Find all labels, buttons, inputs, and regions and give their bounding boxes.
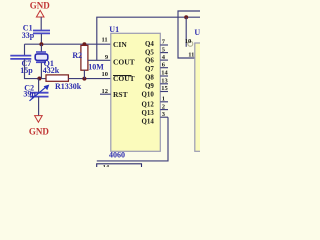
svg-text:432k: 432k: [43, 66, 60, 75]
svg-text:13: 13: [161, 78, 168, 85]
crystal Q1 value 432k: [35, 52, 60, 75]
svg-text:39p: 39p: [23, 89, 36, 98]
wire R1 right to pin10: [68, 78, 110, 80]
pin 12 RST: [100, 88, 128, 99]
svg-text:11: 11: [102, 37, 108, 44]
wire branch down to U2 pin 10: [185, 17, 187, 47]
svg-text:R1330k: R1330k: [55, 82, 82, 91]
svg-text:1: 1: [162, 96, 165, 103]
capacitor C2 trimmer value 39p: [23, 79, 49, 101]
svg-text:GND: GND: [29, 127, 50, 137]
wire gnd to C1: [40, 17, 42, 30]
svg-text:Q12: Q12: [142, 102, 155, 109]
svg-text:15p: 15p: [20, 66, 33, 75]
svg-text:10: 10: [185, 38, 192, 45]
pin 6 Q7: [145, 61, 168, 73]
pin 10 bubble U2: [185, 38, 193, 46]
pin 5 Q5: [145, 46, 168, 56]
svg-text:Q14: Q14: [142, 119, 155, 126]
pin 9 COUT: [105, 54, 135, 67]
svg-text:U1: U1: [109, 25, 119, 34]
svg-text:Q6: Q6: [145, 58, 154, 65]
wire C1 to CIN net: [40, 34, 42, 44]
node junction crystal/CIN: [39, 42, 43, 46]
pin 15 Q10: [142, 85, 169, 98]
svg-text:11: 11: [188, 51, 194, 58]
wire C7 to R1 row: [25, 59, 47, 78]
wire C2 to ground: [38, 97, 40, 116]
svg-text:15: 15: [161, 85, 168, 92]
pin 3 Q14: [142, 111, 168, 126]
resistor R1 value 330k: [46, 75, 82, 91]
svg-text:4060: 4060: [109, 150, 125, 159]
pin 2 Q13: [142, 103, 168, 117]
svg-text:12: 12: [102, 88, 109, 95]
pin 1 Q12: [142, 96, 168, 109]
wire crystal top: [40, 44, 42, 51]
wire CIN net pin 11: [25, 43, 111, 45]
node junction top rail to U2 pin10: [184, 15, 188, 19]
pin 7 Q4: [145, 39, 168, 48]
wire crystal bottom: [40, 63, 42, 79]
wire drop to C7: [24, 44, 26, 55]
ground GND bottom power port: [29, 116, 50, 137]
svg-text:Q4: Q4: [145, 41, 154, 48]
svg-text:Q10: Q10: [142, 91, 155, 98]
svg-text:10: 10: [102, 71, 109, 78]
svg-text:R2: R2: [72, 51, 82, 60]
pin 13 Q9: [145, 78, 169, 90]
svg-text:14: 14: [103, 164, 110, 167]
IC U2 partial right: [194, 28, 206, 151]
resistor R2 value 10M: [72, 45, 104, 78]
pin 4 Q6: [145, 54, 168, 65]
wire Q14 pin3 to bottom net: [97, 117, 168, 161]
svg-text:COUT: COUT: [113, 58, 135, 67]
ground GND top power port: [30, 1, 51, 17]
svg-text:33p: 33p: [22, 31, 35, 40]
capacitor C1 value 33p: [22, 24, 50, 40]
IC U4 partial bottom: [97, 164, 142, 172]
pin 10 COUT-bar: [102, 71, 135, 83]
svg-text:Q13: Q13: [142, 110, 155, 117]
svg-text:GND: GND: [30, 1, 51, 11]
pin 11 CIN: [102, 37, 128, 49]
svg-text:14: 14: [161, 70, 168, 77]
wire COUT pin9 net to top rail: [88, 59, 111, 61]
svg-text:RST: RST: [113, 90, 128, 99]
svg-text:Q7: Q7: [145, 66, 154, 73]
svg-text:CIN: CIN: [113, 40, 127, 49]
svg-text:Q9: Q9: [145, 83, 154, 90]
svg-text:U2: U2: [194, 28, 200, 37]
pin 14 Q8: [145, 70, 169, 82]
node junction R2 bottom: [82, 77, 86, 81]
node junction crystal bottom / R1: [37, 77, 41, 81]
svg-text:2: 2: [162, 103, 165, 110]
wire net to U2 pin 11: [178, 11, 200, 58]
IC U1 4060 body: [109, 25, 160, 159]
svg-text:Q5: Q5: [145, 49, 154, 56]
capacitor C7 value 15p: [10, 56, 33, 75]
node junction R2 top: [82, 42, 86, 46]
svg-text:Q8: Q8: [145, 75, 154, 82]
